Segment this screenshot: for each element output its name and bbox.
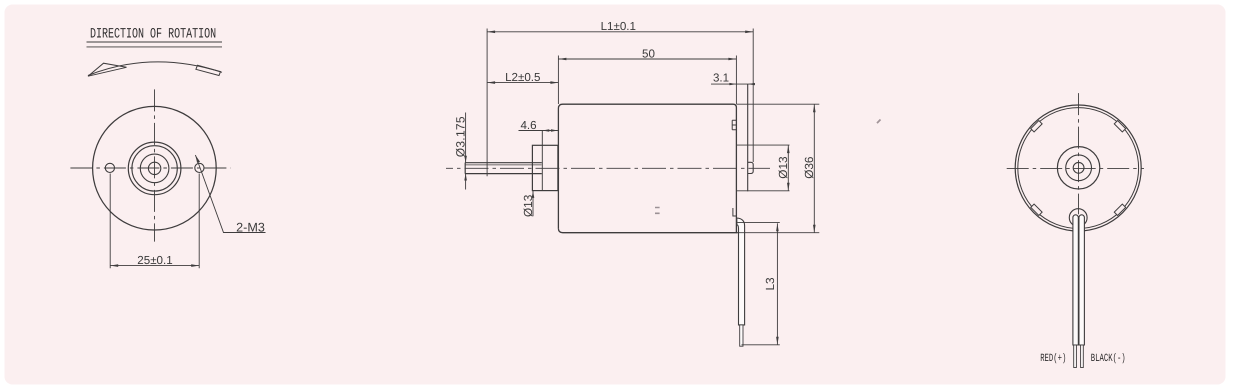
dim Ø13 right arrows xyxy=(787,145,790,191)
svg-text:RED(+): RED(+) xyxy=(1040,353,1066,365)
dim 3.1 arrows xyxy=(729,83,755,85)
front bearing boss xyxy=(532,145,558,190)
motor body xyxy=(558,104,736,233)
front view vertical centerline xyxy=(154,89,156,241)
dim Ø36 arrows xyxy=(813,104,816,233)
dim L1 text xyxy=(601,20,636,33)
svg-text:Ø13: Ø13 xyxy=(521,194,535,217)
mounting hole right xyxy=(195,163,204,172)
dim 4.6 line xyxy=(519,130,558,132)
motor body bottom edge xyxy=(558,228,737,232)
side wire (filled) xyxy=(737,218,745,325)
rear shaft bump xyxy=(748,162,753,173)
dim Ø36 extensions xyxy=(736,104,819,233)
title underline double xyxy=(87,42,223,47)
svg-text:Ø13: Ø13 xyxy=(776,156,790,179)
dim Ø36 line xyxy=(813,104,815,233)
dim Ø3.175 text xyxy=(454,116,468,157)
dim 50 arrows xyxy=(558,58,736,61)
bearing circle xyxy=(140,154,169,183)
rotation arc xyxy=(88,62,222,76)
rear hub circle xyxy=(1057,147,1099,189)
svg-text:DIRECTION OF ROTATION: DIRECTION OF ROTATION xyxy=(90,27,216,43)
body small mark xyxy=(655,208,660,214)
dim 3.1 line xyxy=(711,83,755,85)
dim Ø13 left leader xyxy=(532,191,534,216)
dim 50 text xyxy=(642,47,655,60)
svg-text:2-M3: 2-M3 xyxy=(236,220,265,234)
dim Ø36 text xyxy=(802,156,816,179)
rear inner rim xyxy=(1018,108,1139,229)
dim L1 line xyxy=(487,31,753,33)
label RED(+) xyxy=(1040,353,1066,365)
motor outer circle (front view) xyxy=(93,106,217,230)
dim 50 line xyxy=(558,58,736,60)
dim Ø13 left text xyxy=(521,194,535,217)
rear horizontal centerline xyxy=(1007,167,1144,169)
dim L2 arrows xyxy=(487,81,558,84)
side wire stripped end xyxy=(740,325,743,346)
bearing boss circle 2 xyxy=(132,146,177,191)
L1/L2 left extension xyxy=(486,29,488,177)
label 2-M3 xyxy=(236,220,265,234)
leader arrowhead xyxy=(195,155,200,163)
dim L3 extensions xyxy=(737,223,780,345)
endcap face xyxy=(747,84,749,191)
dim L1 arrows xyxy=(487,31,753,34)
dim Ø13 right line xyxy=(787,145,789,191)
svg-text:50: 50 xyxy=(642,47,655,60)
dim Ø3.175 arrows xyxy=(464,156,467,181)
dim L3 text xyxy=(763,277,777,291)
svg-text:BLACK(-): BLACK(-) xyxy=(1091,353,1126,365)
terminal tab E xyxy=(732,120,736,130)
rotation arrowhead left xyxy=(88,63,127,76)
dim L3 line xyxy=(776,223,778,344)
rear crimp tab 225 xyxy=(1031,204,1042,215)
dim 4.6 arrows xyxy=(542,129,558,131)
label BLACK(-) xyxy=(1091,353,1126,365)
rear shaft circle xyxy=(1073,162,1084,173)
svg-text:3.1: 3.1 xyxy=(713,72,729,85)
rotation arrow tail right (open parallelogram) xyxy=(196,65,221,75)
leader 2-M3 xyxy=(195,155,265,233)
svg-text:25±0.1: 25±0.1 xyxy=(137,254,172,267)
svg-text:Ø36: Ø36 xyxy=(802,156,816,179)
terminal tab L xyxy=(733,208,737,216)
shaft highlight line xyxy=(466,164,542,166)
dim 25±0.1 arrows xyxy=(110,264,199,267)
dim 3.1 text xyxy=(713,72,729,85)
dim L2 line xyxy=(487,82,558,84)
dim 25±0.1 extension lines xyxy=(110,174,199,269)
mounting hole left xyxy=(105,163,114,172)
dim Ø13 left arrow xyxy=(532,191,535,198)
rear hub circle 2 xyxy=(1066,155,1092,181)
front view horizontal centerline xyxy=(70,167,230,169)
shaft circle xyxy=(148,162,160,174)
rear wire stripped ends xyxy=(1074,345,1084,368)
svg-text:L2±0.5: L2±0.5 xyxy=(505,71,540,84)
dim 4.6 text xyxy=(520,119,536,132)
side view centerline xyxy=(446,167,770,169)
wire grommet xyxy=(1069,209,1087,227)
rear crimp tab 45 xyxy=(1031,121,1042,132)
rear outer rim xyxy=(1015,105,1141,231)
dim Ø13 right extensions xyxy=(736,145,789,191)
svg-text:L3: L3 xyxy=(763,277,777,291)
bearing boss circle 1 xyxy=(128,142,181,195)
rear vertical centerline xyxy=(1078,93,1080,214)
title DIRECTION OF ROTATION xyxy=(90,27,216,43)
L1 right extension xyxy=(752,29,754,163)
rear crimp tab 135 xyxy=(1114,121,1125,132)
dim L2 text xyxy=(505,71,540,84)
dim 25±0.1 text xyxy=(137,254,172,267)
rear wires xyxy=(1073,215,1084,345)
boss inner line / 4.6 extension xyxy=(541,131,543,191)
dim 50 extensions xyxy=(558,56,736,105)
dim Ø3.175 lines xyxy=(465,113,467,190)
stray tick xyxy=(877,120,881,124)
rear crimp tab 315 xyxy=(1114,204,1125,215)
shaft xyxy=(465,163,542,174)
dim Ø13 right text xyxy=(776,156,790,179)
dim L3 arrows xyxy=(776,223,779,344)
svg-text:Ø3.175: Ø3.175 xyxy=(454,116,468,157)
dim 25±0.1 line xyxy=(110,265,199,267)
svg-text:4.6: 4.6 xyxy=(520,119,536,132)
svg-text:L1±0.1: L1±0.1 xyxy=(601,20,636,33)
